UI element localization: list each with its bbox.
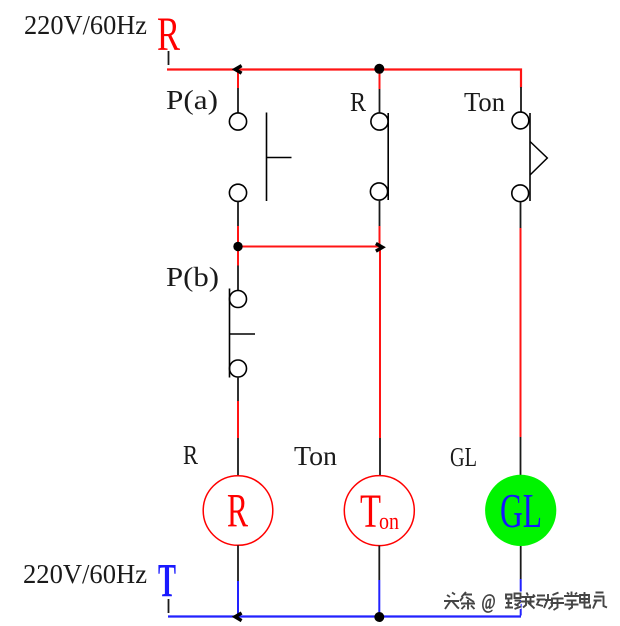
- junction dot (top bus at R contact branch): [374, 64, 384, 74]
- svg-text:Ton: Ton: [464, 87, 505, 117]
- wire: bottom bus (T line, blue): [168, 615, 521, 617]
- junction dot node B (P(a) bottom): [233, 242, 242, 251]
- svg-text:GL: GL: [450, 442, 477, 472]
- contact R (NO relay contact): [370, 113, 388, 200]
- junction dot (T bus at coil Ton): [374, 612, 384, 622]
- wire: R contact to node C: [379, 200, 381, 247]
- junction arrow (T bus at coil R): [235, 613, 242, 621]
- wire: node B to R-contact branch (red rung): [238, 246, 380, 248]
- wire: T-line lead tick: [168, 599, 170, 613]
- wire: coil Ton to T bus: [378, 546, 380, 616]
- wire: coil R to T bus: [237, 545, 239, 616]
- svg-text:T: T: [360, 485, 381, 538]
- svg-text:P(b): P(b): [166, 262, 219, 292]
- lamp GL (green pilot light): [485, 475, 556, 546]
- contact Ton (on-delay timed NO): [512, 112, 547, 202]
- svg-text:R: R: [183, 440, 198, 470]
- svg-text:@: @: [482, 590, 496, 614]
- svg-text:GL: GL: [500, 483, 542, 538]
- wire: Ton contact branch top lead: [520, 70, 522, 113]
- wire: R-line lead tick: [168, 51, 170, 65]
- svg-text:P(a): P(a): [166, 85, 218, 115]
- svg-text:220V/60Hz: 220V/60Hz: [24, 10, 147, 40]
- junction arrow node C (R contact bottom): [376, 244, 383, 252]
- junction arrow (top bus at P(a) branch): [235, 66, 242, 74]
- wire: P(a) to node B: [237, 202, 239, 248]
- pushbutton P(a) NO: terminals and actuator: [229, 113, 291, 202]
- watermark 头条 @跟我动手学电气: [444, 590, 607, 614]
- wire: P(a) branch top lead: [237, 70, 239, 113]
- coil Ton: [344, 476, 414, 546]
- svg-text:R: R: [227, 485, 248, 538]
- svg-text:Ton: Ton: [294, 441, 338, 471]
- wire: Ton contact to lamp GL: [520, 202, 522, 475]
- wire: node C to coil Ton: [379, 247, 381, 477]
- coil R: [203, 476, 273, 546]
- wire: node B to P(b): [237, 247, 239, 291]
- wire: P(b) to coil R: [237, 377, 239, 476]
- svg-text:T: T: [158, 555, 176, 608]
- wire: R contact branch top lead: [379, 70, 381, 113]
- wire: lamp GL to T bus: [520, 546, 522, 616]
- wire: top bus (R line, red): [167, 70, 521, 88]
- svg-text:on: on: [379, 509, 399, 535]
- svg-text:R: R: [350, 87, 366, 117]
- svg-text:220V/60Hz: 220V/60Hz: [23, 559, 147, 589]
- pushbutton P(b) NC: terminals and actuator: [230, 289, 256, 378]
